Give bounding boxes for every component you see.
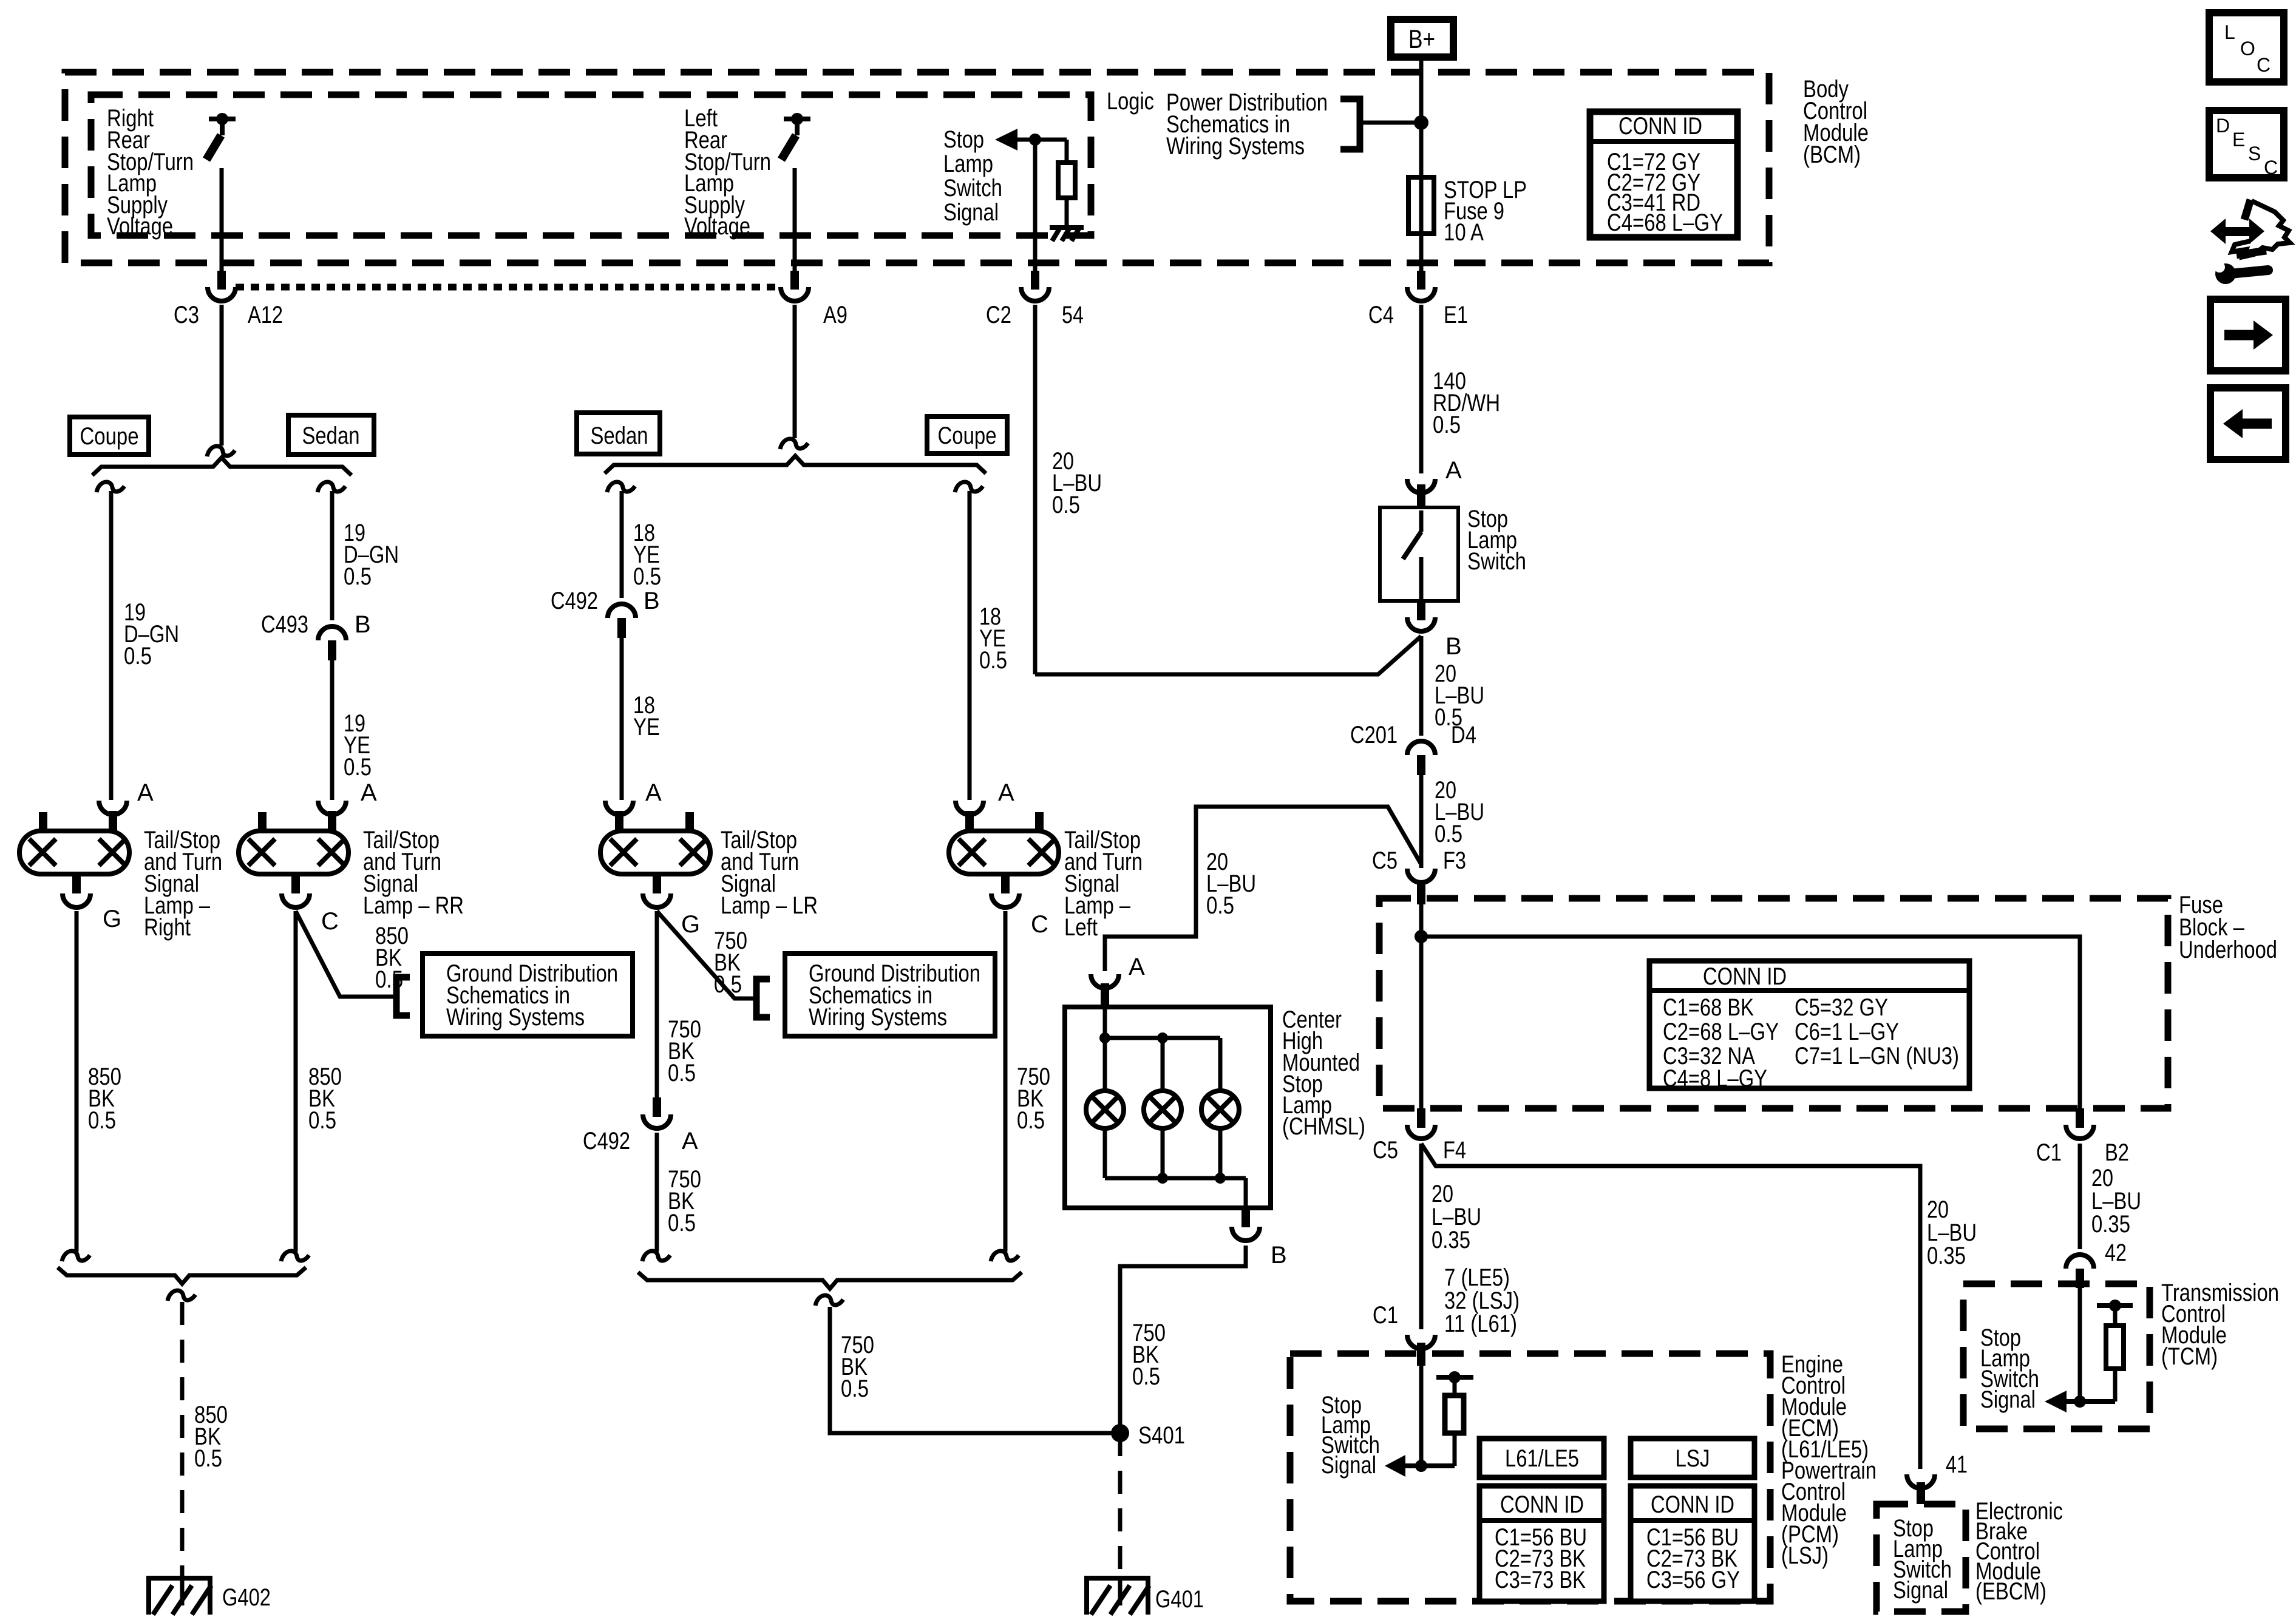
- svg-text:G: G: [103, 906, 121, 932]
- svg-text:L: L: [2224, 21, 2235, 43]
- svg-text:0.35: 0.35: [2091, 1211, 2130, 1238]
- svg-text:C: C: [321, 908, 339, 935]
- coupe branch wire (lamp left): [955, 482, 983, 492]
- svg-text:C5: C5: [1373, 1137, 1398, 1164]
- svg-text:0.5: 0.5: [344, 754, 372, 781]
- CHMSL feed wire to C5/F3: [1105, 807, 1421, 971]
- svg-text:S401: S401: [1138, 1422, 1185, 1449]
- svg-text:0.5: 0.5: [1132, 1363, 1160, 1390]
- svg-text:Voltage: Voltage: [684, 213, 750, 240]
- lamp element 1: [1086, 1091, 1124, 1128]
- svg-text:Signal: Signal: [1980, 1386, 2036, 1413]
- svg-text:C4: C4: [1368, 302, 1394, 328]
- connector A9: [781, 271, 847, 328]
- svg-text:(EBCM): (EBCM): [1975, 1578, 2046, 1605]
- svg-text:Coupe: Coupe: [938, 422, 997, 449]
- LOC icon: [2209, 13, 2284, 82]
- TCM internal circuit: [2045, 1288, 2133, 1412]
- svg-text:G402: G402: [222, 1584, 271, 1611]
- L61/LE5 box: [1479, 1439, 1604, 1477]
- svg-text:C: C: [2257, 54, 2271, 76]
- svg-text:Right: Right: [144, 914, 191, 941]
- svg-text:0.5: 0.5: [124, 643, 152, 670]
- wire B2 to TCM 42: [2078, 1144, 2082, 1249]
- svg-text:B2: B2: [2105, 1139, 2129, 1166]
- wire C201 to C5/F3: [1419, 775, 1424, 868]
- forward arrow icon: [2210, 299, 2286, 371]
- Sedan box (left rear group): [577, 413, 660, 454]
- svg-text:0.35: 0.35: [1927, 1242, 1966, 1269]
- ground distribution box 2: [785, 954, 995, 1036]
- lamp LR: tail/stop and turn signal lamp - LR: [600, 779, 710, 938]
- svg-text:11 (L61): 11 (L61): [1444, 1310, 1517, 1337]
- svg-text:A: A: [1445, 457, 1462, 484]
- svg-text:0.5: 0.5: [633, 563, 661, 590]
- svg-text:CONN ID: CONN ID: [1500, 1491, 1584, 1518]
- wire CHMSL B to S401: [1120, 1246, 1246, 1433]
- svg-text:C5: C5: [1372, 847, 1398, 874]
- svg-text:54: 54: [1062, 302, 1084, 328]
- svg-text:Wiring Systems: Wiring Systems: [809, 1004, 947, 1031]
- svg-text:A: A: [998, 779, 1014, 806]
- svg-text:C: C: [2264, 157, 2278, 178]
- svg-text:C4=68 L–GY: C4=68 L–GY: [1607, 209, 1723, 236]
- wire bracket to node: [1360, 121, 1421, 125]
- connector 41 at EBCM: [1907, 1451, 1968, 1504]
- connector C5 F3: [1372, 847, 1466, 904]
- svg-text:10 A: 10 A: [1444, 219, 1484, 246]
- svg-text:F4: F4: [1443, 1137, 1466, 1164]
- svg-text:C2: C2: [986, 302, 1011, 328]
- svg-text:Switch: Switch: [943, 175, 1002, 202]
- svg-text:A: A: [682, 1128, 698, 1154]
- ground distribution box 1: [423, 954, 633, 1036]
- svg-text:C5=32 GY: C5=32 GY: [1795, 994, 1888, 1021]
- svg-text:(LSJ): (LSJ): [1781, 1542, 1829, 1569]
- wire F4 to ECM C1: [1419, 1144, 1424, 1329]
- svg-text:C6=1 L–GY: C6=1 L–GY: [1795, 1019, 1899, 1045]
- Coupe box (right rear group): [70, 417, 149, 455]
- svg-text:(CHMSL): (CHMSL): [1282, 1113, 1365, 1140]
- connector C1 at ECM: [1373, 1302, 1435, 1366]
- right rear switch symbol (BCM internal): [206, 113, 236, 160]
- svg-text:A: A: [137, 779, 154, 806]
- svg-text:C1: C1: [2036, 1139, 2062, 1166]
- left rear switch symbol (BCM internal): [781, 113, 810, 160]
- svg-text:0.5: 0.5: [841, 1375, 869, 1402]
- wire A9 to brace: [793, 305, 797, 438]
- splice S401: [1111, 1424, 1129, 1442]
- svg-text:0.5: 0.5: [88, 1107, 116, 1134]
- connector C4 E1: [1368, 271, 1468, 328]
- BCM internal ground: [1050, 225, 1084, 230]
- lamp element 2: [1144, 1091, 1181, 1128]
- svg-text:A: A: [361, 779, 377, 806]
- svg-text:C1: C1: [1373, 1302, 1398, 1329]
- svg-text:Sedan: Sedan: [591, 422, 648, 449]
- connector C201 D4: [1350, 722, 1476, 775]
- svg-text:D4: D4: [1451, 722, 1476, 748]
- svg-text:Lamp – LR: Lamp – LR: [721, 892, 818, 919]
- brace split left-rear: [605, 456, 986, 473]
- svg-text:C: C: [1031, 911, 1048, 938]
- LSJ box: [1631, 1439, 1754, 1477]
- connector C5 F4: [1373, 1108, 1466, 1164]
- wire B to C201: [1419, 636, 1424, 736]
- bracket into ground distribution box 2: [756, 979, 770, 1017]
- Fuse block CONN ID table: [1649, 961, 1969, 1092]
- svg-text:C3: C3: [174, 302, 199, 328]
- svg-text:(TCM): (TCM): [2161, 1343, 2218, 1370]
- svg-text:Left: Left: [1064, 914, 1098, 941]
- svg-text:A: A: [1129, 954, 1145, 980]
- svg-text:(BCM): (BCM): [1803, 141, 1861, 168]
- node junction dot: [1414, 115, 1428, 130]
- svg-text:S: S: [2248, 143, 2261, 164]
- svg-text:Stop: Stop: [943, 126, 984, 153]
- svg-text:CONN ID: CONN ID: [1703, 963, 1787, 990]
- fuse STOP LP Fuse 9 10A: [1419, 123, 1424, 272]
- connector C3 A12: [174, 271, 283, 328]
- svg-text:Wiring Systems: Wiring Systems: [446, 1004, 585, 1031]
- svg-text:A9: A9: [823, 302, 847, 328]
- Coupe box (left rear group): [927, 416, 1007, 453]
- BCM stop lamp switch signal: arrow, node, resistor, ground: [943, 126, 1084, 241]
- svg-text:B+: B+: [1408, 25, 1435, 54]
- svg-text:0.5: 0.5: [194, 1445, 222, 1472]
- svg-text:0.5: 0.5: [714, 971, 742, 998]
- svg-text:0.5: 0.5: [1435, 821, 1462, 847]
- svg-text:D: D: [2216, 115, 2230, 137]
- bracket into ground distribution box 1: [396, 977, 410, 1015]
- svg-text:Underhood: Underhood: [2179, 937, 2277, 963]
- svg-text:L61/LE5: L61/LE5: [1505, 1445, 1579, 1472]
- Engine Control Module dashed box: [1290, 1354, 1770, 1601]
- bracket to power distribution: [1340, 99, 1360, 149]
- svg-text:0.5: 0.5: [1206, 892, 1234, 919]
- svg-text:B: B: [1271, 1242, 1287, 1269]
- LR lamp ground wire down: [655, 911, 659, 1099]
- connector A at stop lamp switch: [1407, 479, 1435, 493]
- svg-text:C2=68 L–GY: C2=68 L–GY: [1663, 1019, 1779, 1045]
- svg-text:42: 42: [2105, 1239, 2127, 1266]
- svg-text:0.5: 0.5: [979, 647, 1007, 674]
- stop lamp switch box: [1380, 506, 1526, 601]
- coupe branch wire (lamp right): [97, 482, 124, 492]
- lamp RR ground wire: [294, 911, 298, 1252]
- Sedan box (right rear group): [288, 415, 374, 455]
- svg-text:0.35: 0.35: [1432, 1227, 1470, 1253]
- svg-text:Coupe: Coupe: [80, 423, 139, 450]
- brace split right-rear: [92, 458, 352, 475]
- svg-text:CONN ID: CONN ID: [1618, 113, 1702, 140]
- svg-text:Switch: Switch: [1467, 548, 1526, 575]
- lamp element 3: [1201, 1091, 1239, 1128]
- svg-text:A12: A12: [248, 302, 283, 328]
- svg-text:B: B: [1445, 633, 1462, 660]
- CHMSL connector B: [1232, 1208, 1287, 1269]
- BCM logic inner dashed box: [91, 95, 1091, 236]
- svg-text:O: O: [2240, 38, 2255, 59]
- svg-text:CONN ID: CONN ID: [1651, 1491, 1734, 1518]
- svg-text:0.5: 0.5: [1052, 492, 1080, 518]
- wire C2/54 to stop lamp switch B: [1033, 305, 1038, 674]
- wire C2 drop inside BCM: [1033, 140, 1038, 273]
- dotted connector line C3 to A9: [236, 284, 781, 291]
- dashed ground wire to G402: [180, 1302, 185, 1577]
- connector B at stop lamp switch: [1417, 601, 1425, 620]
- sedan branch wire (lamp RR): [318, 482, 345, 492]
- connector C493 B: [261, 611, 371, 660]
- brace join right group: [58, 1267, 306, 1284]
- wire B+ to BCM: [1419, 61, 1424, 124]
- svg-text:Signal: Signal: [1893, 1577, 1948, 1604]
- wire brace to S401: [830, 1307, 1116, 1433]
- DESC icon: [2209, 110, 2284, 178]
- wire C4/E1 to stop lamp switch: [1419, 305, 1424, 473]
- connector C1 B2: [2036, 1108, 2129, 1166]
- back arrow icon: [2210, 388, 2286, 459]
- lamp RR: tail/stop and turn signal lamp - RR: [239, 779, 377, 935]
- Electronic Brake Control Module dashed box: [1877, 1504, 1966, 1612]
- left lamp ground wire: [1004, 911, 1008, 1252]
- svg-text:Lamp – RR: Lamp – RR: [363, 892, 464, 919]
- svg-text:G401: G401: [1155, 1586, 1204, 1613]
- svg-text:C492: C492: [551, 588, 598, 614]
- wire right rear drop: [220, 168, 224, 273]
- svg-text:0.5: 0.5: [308, 1107, 336, 1134]
- B+ terminal: [1391, 19, 1453, 57]
- brace join left group: [638, 1272, 1022, 1289]
- svg-text:0.5: 0.5: [668, 1210, 696, 1236]
- svg-text:B: B: [355, 611, 371, 638]
- svg-text:C201: C201: [1350, 722, 1398, 748]
- svg-text:0.5: 0.5: [1017, 1107, 1045, 1134]
- svg-text:Signal: Signal: [1321, 1452, 1376, 1479]
- connector C492 B: [551, 588, 660, 638]
- wire F4 branch to EBCM: [1421, 1144, 1920, 1469]
- svg-text:C493: C493: [261, 611, 308, 638]
- ground G401: [1084, 1577, 1204, 1615]
- svg-text:Lamp: Lamp: [943, 151, 993, 177]
- svg-text:A: A: [645, 779, 662, 806]
- svg-text:C3=56 GY: C3=56 GY: [1646, 1567, 1740, 1593]
- fuse block internal wire and node: [1419, 904, 1424, 1108]
- BCM CONN ID table: [1590, 112, 1737, 237]
- Body Control Module (BCM) dashed box: [65, 72, 1769, 263]
- svg-text:E1: E1: [1444, 302, 1468, 328]
- svg-text:G: G: [681, 911, 700, 938]
- connector 42: [2066, 1239, 2127, 1288]
- ground G402: [146, 1577, 271, 1615]
- svg-text:C492: C492: [583, 1128, 630, 1154]
- RR lamp wire to ground distribution: [296, 911, 396, 997]
- sedan branch wire (lamp LR): [607, 482, 635, 492]
- lamp left: tail/stop and turn signal lamp - left: [949, 779, 1059, 938]
- svg-text:YE: YE: [633, 714, 660, 741]
- lamp right: tail/stop and turn signal lamp - right: [19, 779, 154, 932]
- svg-text:0.5: 0.5: [344, 563, 372, 590]
- svg-text:Wiring Systems: Wiring Systems: [1166, 133, 1305, 160]
- svg-text:0.5: 0.5: [1433, 412, 1461, 438]
- svg-text:Logic: Logic: [1107, 88, 1154, 115]
- svg-text:C7=1 L–GN (NU3): C7=1 L–GN (NU3): [1795, 1043, 1959, 1070]
- svg-text:C3=73 BK: C3=73 BK: [1495, 1567, 1586, 1593]
- wire left rear drop: [793, 168, 797, 273]
- ECM internal circuit: [1385, 1366, 1473, 1477]
- LR lamp wire to ground distribution: [657, 911, 756, 998]
- svg-text:Signal: Signal: [943, 199, 999, 226]
- Fuse Block Underhood dashed box: [1379, 898, 2168, 1108]
- CHMSL feed connector A: [1091, 954, 1145, 1007]
- svg-text:Voltage: Voltage: [107, 213, 173, 240]
- Transmission Control Module dashed box: [1963, 1284, 2150, 1429]
- connector C2 54: [986, 271, 1084, 328]
- Center High Mounted Stop Lamp box: [1065, 1007, 1271, 1208]
- vehicle with wrench icon: [2210, 200, 2290, 284]
- svg-text:F3: F3: [1443, 847, 1466, 874]
- svg-text:C4=8 L–GY: C4=8 L–GY: [1663, 1065, 1767, 1092]
- svg-text:B: B: [644, 588, 660, 614]
- ECM CONN ID table L61/LE5: [1479, 1486, 1604, 1601]
- svg-text:C1=68 BK: C1=68 BK: [1663, 994, 1754, 1021]
- svg-text:E: E: [2232, 129, 2245, 151]
- dashed ground wire to G401: [1118, 1433, 1123, 1577]
- lamp right ground wire: [75, 911, 79, 1252]
- svg-text:LSJ: LSJ: [1676, 1445, 1710, 1472]
- connector C492 A: [583, 1097, 698, 1154]
- ECM CONN ID table LSJ: [1631, 1486, 1754, 1601]
- svg-text:Sedan: Sedan: [302, 422, 360, 449]
- svg-text:0.5: 0.5: [668, 1060, 696, 1086]
- svg-text:41: 41: [1946, 1451, 1968, 1478]
- wire C3 to brace: [220, 305, 224, 446]
